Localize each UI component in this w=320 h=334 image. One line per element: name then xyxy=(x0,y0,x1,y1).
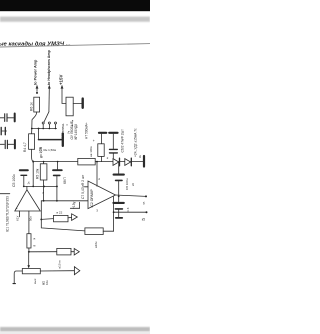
svg-text:до 1,5В: до 1,5В xyxy=(39,147,43,158)
op-amp1 output riser xyxy=(26,186,28,189)
capacitor C6 lead xyxy=(73,102,81,104)
C12 plate a xyxy=(110,148,118,150)
C12 stem upper xyxy=(112,134,114,149)
svg-text:R5 10к: R5 10к xyxy=(36,168,40,179)
svg-text:ж: ж xyxy=(33,237,35,241)
output arrow after R9 xyxy=(72,214,78,221)
resistor R10 xyxy=(28,211,30,234)
switch SA1 arm xyxy=(44,112,49,123)
svg-text:ІС1 ТL082/ТL072/LF353: ІС1 ТL082/ТL072/LF353 xyxy=(5,196,9,232)
arrow to Headphones Amp xyxy=(48,88,50,112)
supply wire +15V to op-amp2 xyxy=(70,202,79,208)
input capacitor C3 xyxy=(0,143,4,145)
op-amp1 input pin stub xyxy=(19,211,21,217)
capacitor C8 xyxy=(118,162,120,174)
capacitor C4 lead (thick) xyxy=(39,139,62,141)
wire R4 to rail xyxy=(32,149,34,161)
switch contact stubs xyxy=(42,124,44,129)
node A wire (op-amp 1 output node) xyxy=(23,186,25,188)
supply cap C11 top bar xyxy=(99,132,106,134)
C12 plate b xyxy=(110,152,118,154)
svg-text:б: б xyxy=(139,155,141,159)
main horizontal rail wire xyxy=(33,161,143,163)
op-amp2 output wire xyxy=(116,195,147,196)
junction dots on bus xyxy=(31,128,33,130)
op-amp IC1.1 triangle xyxy=(15,190,41,211)
wire R6 to switch bus xyxy=(32,112,37,129)
resistor R7 vertical xyxy=(101,134,103,144)
bottom light strip xyxy=(0,332,150,334)
rail end terminal bar xyxy=(143,156,145,167)
svg-text:+: + xyxy=(93,139,95,143)
resistor R13 xyxy=(85,228,103,235)
node rail-left junction xyxy=(32,161,34,163)
svg-text:ІС2 ОРАМР: ІС2 ОРАМР xyxy=(90,189,94,208)
top black banner xyxy=(0,0,150,11)
capacitor C6 plate bar xyxy=(81,99,83,108)
wire to R12 xyxy=(29,251,57,253)
wire R10 to junction xyxy=(28,248,30,252)
page background xyxy=(0,0,150,334)
wire input stub left edge xyxy=(0,193,10,195)
rail junction dots xyxy=(43,161,45,163)
output arrow row2 xyxy=(74,267,79,275)
arrow +15V xyxy=(61,88,63,104)
svg-text:м: м xyxy=(33,244,35,248)
svg-text:С5 100к: С5 100к xyxy=(12,174,16,187)
svg-text:в 22: в 22 xyxy=(57,211,63,215)
diode VD2 xyxy=(125,159,131,166)
riser from rail to node A xyxy=(32,162,34,187)
svg-text:ав 100к: ав 100к xyxy=(89,146,93,157)
svg-text:+24, УД2 ±15мА 7с: +24, УД2 ±15мА 7с xyxy=(134,128,138,157)
svg-text:в22к: в22к xyxy=(94,241,98,248)
wire +15V to C6 xyxy=(62,102,66,104)
input capacitor C1 xyxy=(0,117,4,119)
top gray band xyxy=(0,17,150,22)
svg-text:к6: к6 xyxy=(131,183,135,186)
op-amp2 upper input tick xyxy=(84,186,88,188)
switch bus wire xyxy=(32,128,57,130)
svg-text:б1У: б1У xyxy=(16,216,20,221)
arrow to Power Amp xyxy=(36,88,38,92)
svg-text:С8 100н: С8 100н xyxy=(125,178,129,190)
wiper wire with arrow to R11 xyxy=(28,252,30,265)
input capacitor C2 xyxy=(0,127,2,134)
resistor R5 xyxy=(43,162,45,164)
header rule xyxy=(0,44,150,47)
capacitor C4 plate bar xyxy=(62,133,64,146)
switch contact circle 3 xyxy=(55,122,57,124)
svg-text:Rн 1,50м: Rн 1,50м xyxy=(44,148,57,152)
capacitor C5 xyxy=(20,169,28,171)
long feedback wire to R13 xyxy=(41,219,85,231)
wire to resistor R9 xyxy=(41,218,53,221)
svg-text:С7 0,47мФ 2 шт: С7 0,47мФ 2 шт xyxy=(81,174,85,199)
switch contact circle 1 xyxy=(42,122,44,124)
svg-text:to Power Amp: to Power Amp xyxy=(34,59,38,85)
wire R5 to node xyxy=(43,180,45,201)
resistor R8 on rail xyxy=(78,158,95,165)
supply cap C12 top bar xyxy=(109,132,117,134)
svg-text:б: б xyxy=(143,202,145,206)
wire to capacitor C4 xyxy=(38,129,40,140)
node B wire xyxy=(41,200,88,202)
R11 left lead down xyxy=(14,271,22,283)
R11 right lead long wire xyxy=(40,270,74,272)
svg-text:R4 4,7: R4 4,7 xyxy=(23,142,27,152)
svg-text:10к: 10к xyxy=(45,280,49,285)
svg-text:л 3: л 3 xyxy=(126,207,130,212)
svg-text:в10 м: в10 м xyxy=(57,260,61,268)
switch contact circle 2 xyxy=(48,122,50,124)
potentiometer R11 xyxy=(22,269,40,274)
svg-text:R6 1к: R6 1к xyxy=(29,102,33,111)
output arrow small xyxy=(74,249,79,256)
feedback node stub wire to edge xyxy=(114,211,147,213)
resistor R6 xyxy=(34,97,40,112)
svg-text:С6/2 47мФ 2шт: С6/2 47мФ 2шт xyxy=(121,129,125,153)
op-amp IC1.2 triangle xyxy=(88,181,116,209)
capacitor C6 body rect xyxy=(66,97,73,116)
resistor R4 xyxy=(31,129,33,134)
svg-text:to Headphones Amp: to Headphones Amp xyxy=(47,49,51,85)
capacitor C10 xyxy=(118,196,120,201)
C12 stem lower to rail xyxy=(112,154,114,162)
junction dot R5 lead x node A xyxy=(43,185,45,187)
svg-text:б8 П: б8 П xyxy=(63,177,67,184)
capacitor C9 xyxy=(57,162,59,170)
resistor R12 xyxy=(57,248,71,255)
resistor R9 xyxy=(54,215,69,221)
diode VD1 xyxy=(113,159,119,166)
op-amp2 V+ stub from rail xyxy=(96,162,98,187)
connector dot node xyxy=(36,92,38,94)
svg-text:+15V: +15V xyxy=(59,75,64,85)
svg-text:+15у: +15у xyxy=(72,201,76,209)
svg-text:НТ 500мА+: НТ 500мА+ xyxy=(84,122,88,139)
svg-text:к5: к5 xyxy=(142,218,145,222)
svg-text:вых: вых xyxy=(33,278,37,284)
bottom gray band xyxy=(0,327,150,332)
svg-text:КР140УД8: КР140УД8 xyxy=(74,124,78,140)
feedback vertical wire right of op-amp1 xyxy=(40,201,42,220)
